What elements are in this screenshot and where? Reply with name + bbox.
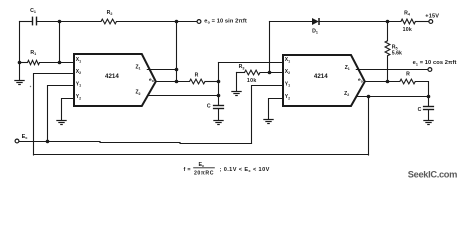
svg-text:C: C — [207, 104, 211, 110]
svg-text:C: C — [418, 107, 422, 113]
svg-text:e1 = 10 cos 2πft: e1 = 10 cos 2πft — [413, 60, 457, 66]
svg-text:4214: 4214 — [314, 73, 328, 80]
svg-text:4214: 4214 — [105, 73, 119, 80]
svg-text:SeekIC.com: SeekIC.com — [408, 170, 457, 180]
svg-text:10k: 10k — [247, 78, 257, 84]
svg-text:20πRC: 20πRC — [194, 171, 214, 177]
svg-text:10k: 10k — [403, 27, 412, 33]
svg-text:R: R — [406, 72, 410, 78]
svg-text:+15V: +15V — [425, 13, 439, 19]
svg-text:R: R — [195, 73, 199, 79]
svg-text:eo: eo — [149, 78, 154, 83]
svg-text:5.6k: 5.6k — [392, 50, 402, 56]
svg-text:eo = 10 sin 2πft: eo = 10 sin 2πft — [204, 19, 247, 25]
svg-text:; 0.1V < Ec < 10V: ; 0.1V < Ec < 10V — [220, 167, 270, 173]
svg-text:eo: eo — [358, 78, 363, 83]
svg-text:f =: f = — [184, 167, 191, 173]
